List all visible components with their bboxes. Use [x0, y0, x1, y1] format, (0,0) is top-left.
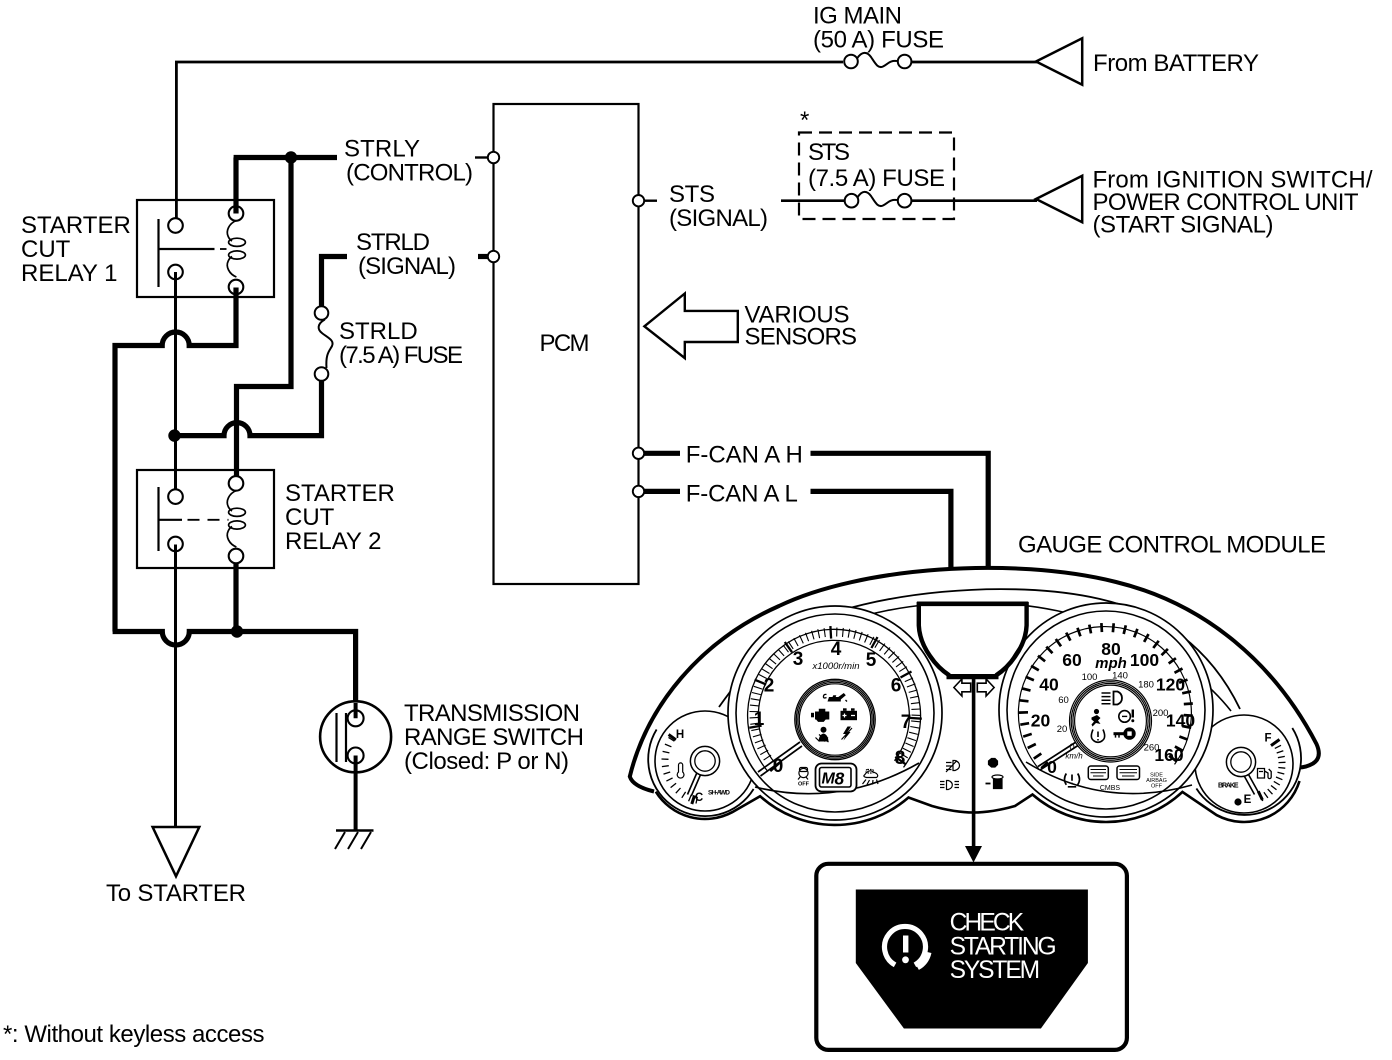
svg-text:5: 5: [866, 650, 877, 671]
wire: relay 2 contact bottom to starter: [174, 545, 177, 828]
svg-text:mph: mph: [1095, 655, 1127, 672]
seat belt icon: [821, 727, 827, 733]
wire: F-CAN A H stub: [645, 451, 681, 456]
gauge module hood outer: [630, 568, 1319, 792]
wire: STS stub: [645, 199, 658, 201]
svg-text:IG MAIN: IG MAIN: [813, 3, 902, 30]
contact terminals: [168, 218, 183, 233]
svg-text:STRLD: STRLD: [339, 318, 418, 345]
svg-text:(SIGNAL): (SIGNAL): [669, 205, 768, 232]
temperature gauge: [655, 711, 755, 811]
svg-text:SYSTEM: SYSTEM: [950, 957, 1041, 984]
fuse STS (7.5 A) in dashed box: [845, 192, 912, 208]
svg-text:(Closed: P or N): (Closed: P or N): [404, 748, 569, 775]
coil terminals: [229, 206, 244, 221]
svg-text:CUT: CUT: [285, 504, 335, 531]
svg-text:F: F: [1264, 733, 1271, 745]
speedometer: [999, 603, 1213, 817]
svg-text:STARTER: STARTER: [21, 212, 131, 239]
connector arrow: From IGNITION SWITCH: [1036, 176, 1082, 222]
temperature gauge pod housing: [648, 730, 753, 817]
svg-text:From BATTERY: From BATTERY: [1093, 50, 1259, 77]
svg-text:100: 100: [1130, 650, 1159, 670]
svg-text:STS: STS: [808, 139, 850, 166]
svg-text:RANGE SWITCH: RANGE SWITCH: [404, 724, 584, 751]
gauge module hood inner lip: [719, 589, 1240, 709]
wire: F-CAN A L to gauge module: [811, 491, 951, 571]
gear position display M8: [816, 764, 857, 792]
tach needle: [758, 742, 802, 776]
svg-text:F-CAN A L: F-CAN A L: [686, 481, 798, 508]
svg-text:120: 120: [1156, 675, 1185, 695]
svg-text:STRLY: STRLY: [344, 136, 420, 163]
svg-text:x1000r/min: x1000r/min: [812, 661, 860, 672]
svg-text:60: 60: [1062, 650, 1082, 670]
svg-text:TRANSMISSION: TRANSMISSION: [404, 700, 580, 727]
tach flank icons: [798, 768, 878, 788]
wire: ground bus to transmission range switch: [113, 632, 356, 704]
svg-text:100: 100: [1082, 672, 1098, 683]
svg-text:60: 60: [1058, 695, 1069, 706]
svg-text:8: 8: [895, 748, 906, 769]
wire: relay 1 contact bottom down to relay 2 contact: [174, 272, 177, 490]
cruise warning icon: [1119, 711, 1131, 723]
svg-text:STARTER: STARTER: [285, 480, 395, 507]
svg-text:M: M: [822, 771, 836, 788]
svg-text:2: 2: [764, 676, 775, 697]
PCM box: [494, 104, 639, 584]
svg-text:3: 3: [793, 649, 804, 670]
arrow: gauge module to indicator: [972, 678, 976, 847]
svg-text:OFF: OFF: [1151, 784, 1163, 790]
svg-text:*: *: [800, 107, 809, 134]
check engine icon: [815, 709, 829, 722]
gauge module face inner outline: [730, 603, 1231, 712]
tachometer: [728, 606, 942, 820]
battery icon: [841, 711, 858, 720]
svg-text:(50 A) FUSE: (50 A) FUSE: [813, 27, 944, 54]
wire: STRLD signal wire from PCM to fuse: [478, 254, 489, 259]
svg-text:140: 140: [1166, 711, 1195, 731]
contact blade: [159, 219, 215, 287]
svg-text:CUT: CUT: [21, 236, 71, 263]
pin: STRLY: [488, 152, 499, 163]
svg-text:RELAY 2: RELAY 2: [285, 528, 382, 555]
svg-text:6: 6: [891, 676, 902, 697]
display side arrows: [954, 679, 971, 696]
coil squiggle: [227, 221, 236, 242]
svg-text:8: 8: [835, 769, 845, 789]
wire: battery feed left drop to relay 1 contact: [175, 62, 178, 218]
tach center rings and warning icons: [795, 679, 875, 759]
svg-text:OFF: OFF: [798, 782, 810, 788]
wire: F-CAN A L stub: [645, 489, 681, 494]
dashed box around STS fuse: [799, 133, 954, 220]
high beam icon: [1102, 693, 1111, 704]
relay: STARTER CUT RELAY 1: [137, 200, 274, 297]
svg-text:SH-AWD: SH-AWD: [708, 790, 730, 797]
relay: STARTER CUT RELAY 2: [137, 470, 274, 568]
svg-text:(CONTROL): (CONTROL): [346, 160, 473, 187]
airbag person icon: [1094, 709, 1099, 714]
svg-text:STS: STS: [669, 181, 715, 208]
svg-text:(SIGNAL): (SIGNAL): [358, 253, 456, 280]
svg-text:(START SIGNAL): (START SIGNAL): [1093, 212, 1274, 239]
tach lower panel edge: [755, 763, 919, 794]
svg-text:1: 1: [754, 709, 765, 730]
wire: STRLD fuse down and left to junction with relay contact line: [174, 381, 322, 436]
connector arrow: From BATTERY: [1036, 38, 1082, 84]
airbag lightning icon: [843, 727, 851, 741]
svg-text:4: 4: [831, 639, 842, 660]
arrow: VARIOUS SENSORS into PCM: [644, 294, 737, 359]
svg-text:20: 20: [1057, 724, 1068, 735]
oil pressure icon: [828, 693, 846, 702]
pin: F-CAN A H: [633, 448, 644, 459]
fuse IG MAIN (50 A): [844, 53, 911, 68]
cluster bottom contour: [656, 781, 1300, 825]
svg-text:GAUGE CONTROL MODULE: GAUGE CONTROL MODULE: [1018, 532, 1326, 559]
immobilizer key icon: [1114, 732, 1125, 735]
svg-text:F-CAN A H: F-CAN A H: [686, 442, 803, 469]
svg-text:CMBS: CMBS: [1100, 785, 1121, 792]
wire: STS to ignition switch: [781, 199, 1037, 202]
svg-text:E: E: [1244, 794, 1252, 806]
transmission range switch: [320, 701, 391, 772]
svg-text:C: C: [695, 792, 703, 804]
wire: relay 1 coil bottom to ground bus: [115, 288, 236, 632]
svg-text:*: Without keyless access: *: Without keyless access: [3, 1021, 265, 1048]
wire: F-CAN A H to gauge module: [811, 453, 989, 573]
speedo needle: [1038, 742, 1078, 770]
fuse STRLD (7.5 A): [315, 306, 333, 381]
svg-text:(7.5 A) FUSE: (7.5 A) FUSE: [808, 165, 945, 192]
connector arrow: To STARTER: [153, 827, 200, 876]
pin: STS: [633, 195, 644, 206]
svg-text:260: 260: [1144, 743, 1160, 754]
svg-text:To STARTER: To STARTER: [106, 880, 246, 907]
pin: F-CAN A L: [633, 486, 644, 497]
svg-text:200: 200: [1153, 708, 1169, 719]
svg-text:180: 180: [1138, 680, 1154, 691]
bottom telltale badges: [1065, 766, 1140, 787]
small telltales beside divider: [940, 759, 1003, 790]
wire: STRLY stub at PCM: [475, 156, 489, 158]
svg-text:20: 20: [1031, 711, 1051, 731]
speedo center rings and icons: [1070, 680, 1152, 762]
wire: STRLY control from relay 1 coil to PCM: [234, 158, 337, 214]
node: STRLD junction: [168, 429, 180, 441]
ground symbol: [335, 831, 374, 850]
node: STRLY junction: [285, 151, 297, 163]
speedo lower panel edge: [1026, 762, 1192, 794]
svg-text:40: 40: [1039, 675, 1059, 695]
warning icon circle: [884, 926, 929, 968]
svg-text:7: 7: [901, 712, 912, 733]
pin: STRLD: [488, 251, 499, 262]
svg-text:RELAY 1: RELAY 1: [21, 260, 118, 287]
node: ground bus junction: [231, 625, 243, 637]
wire: switch to ground: [354, 764, 358, 831]
svg-text:(7.5 A) FUSE: (7.5 A) FUSE: [339, 342, 463, 369]
indicator: CHECK STARTING SYSTEM: [816, 864, 1127, 1050]
fuel gauge pod housing: [1196, 728, 1301, 815]
svg-text:STRLD: STRLD: [356, 229, 430, 256]
wire: relay 2 coil bottom to bus: [233, 563, 238, 632]
svg-text:H: H: [676, 729, 684, 741]
center display window funnel: [917, 602, 1029, 678]
svg-text:PCM: PCM: [540, 330, 590, 357]
TPMS icon: [1091, 730, 1104, 743]
indicator text: [950, 910, 1057, 985]
wire: battery feed top horizontal: [175, 61, 1037, 64]
fuel gauge: [1195, 715, 1293, 813]
wire: STRLY branch down to relay 2 coil: [237, 158, 292, 477]
svg-text:SENSORS: SENSORS: [745, 324, 858, 351]
svg-text:BRAKE: BRAKE: [1218, 783, 1239, 790]
